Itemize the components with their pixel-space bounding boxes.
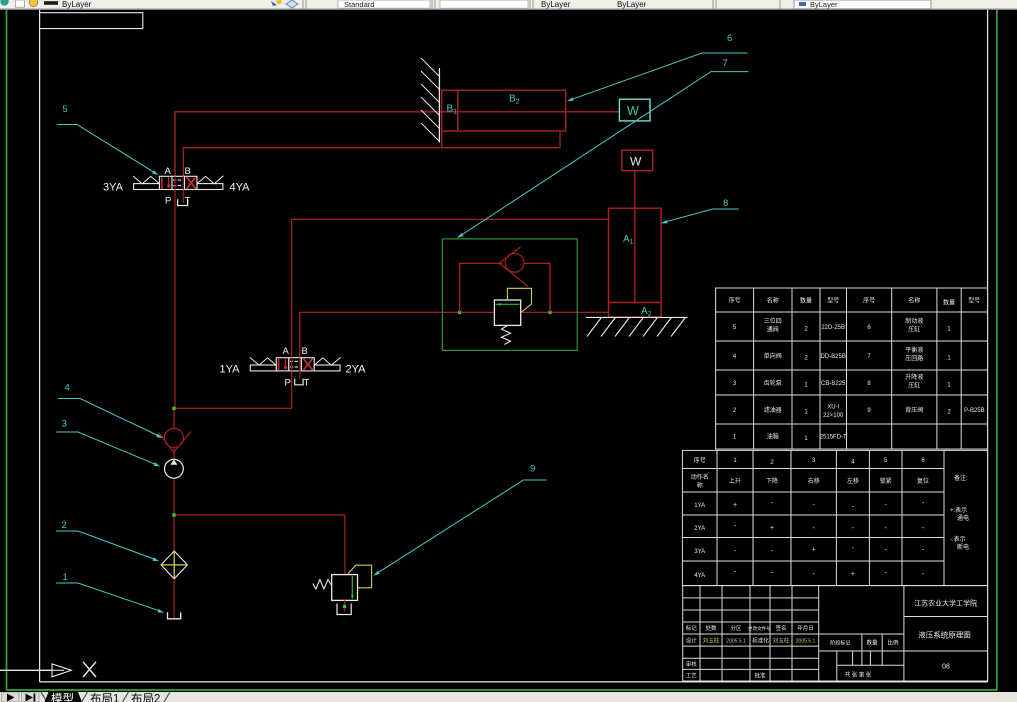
svg-text:P: P	[165, 196, 171, 207]
svg-text:22×100: 22×100	[823, 413, 844, 419]
svg-text:右移: 右移	[808, 477, 820, 485]
leader 6 (to cylinder B)	[571, 53, 748, 100]
svg-text:江苏农业大学工学院: 江苏农业大学工学院	[914, 599, 977, 608]
svg-text:齿轮泵: 齿轮泵	[764, 379, 782, 387]
svg-text:8: 8	[723, 198, 728, 209]
wire: filter to tank T1	[173, 578, 175, 619]
svg-text:+: +	[733, 502, 737, 509]
svg-text:4YA: 4YA	[230, 182, 251, 194]
svg-text:刘玉柱: 刘玉柱	[773, 636, 790, 644]
wire: valve V1 A-port up and right to cylinder B rod line and weight W1	[175, 112, 619, 177]
wire: pump inlet down through junction B to filter	[173, 478, 175, 552]
tank T2 (valve V1 drain)	[178, 199, 188, 205]
svg-text:6: 6	[727, 33, 732, 44]
valve V1 (3YA/4YA solenoid directional valve)	[133, 176, 224, 190]
title block text	[686, 624, 899, 679]
wire: valve V1 B/T vertical drawn over valve body	[182, 176, 184, 189]
leader 8 (to cylinder A)	[664, 209, 739, 222]
wire: valve V2 P/A vertical drawn over valve body	[291, 358, 293, 371]
drawing frame right edge (white)	[987, 10, 989, 682]
leader 5 (to valve V1)	[57, 125, 156, 174]
svg-text:ByLayer: ByLayer	[541, 0, 571, 9]
svg-text:9: 9	[530, 464, 535, 475]
svg-text:油箱: 油箱	[767, 433, 779, 441]
paper boundary (green) left edge	[6, 10, 8, 691]
node D (junction dot right of counterbalance)	[548, 311, 551, 314]
svg-text:ByLayer: ByLayer	[810, 0, 838, 9]
svg-text:XU-I: XU-I	[827, 405, 839, 411]
svg-text:刘玉柱: 刘玉柱	[703, 636, 720, 644]
svg-text:平衡液: 平衡液	[905, 346, 923, 354]
svg-text:上升: 上升	[729, 477, 741, 485]
svg-text:型号: 型号	[968, 297, 980, 305]
svg-text:7: 7	[723, 58, 728, 69]
svg-text:2515FD-T: 2515FD-T	[820, 435, 847, 441]
svg-text:签名: 签名	[775, 624, 786, 632]
pump P1 (circle with up triangle)	[165, 459, 184, 478]
svg-text:分区: 分区	[730, 624, 742, 632]
paper boundary (green) bottom edge	[7, 689, 997, 691]
solenoid table notes column	[950, 474, 969, 551]
node A (junction dot)	[172, 407, 175, 410]
check valve CV1 (above pump)	[159, 428, 191, 452]
tab nav button 1	[2, 692, 20, 702]
svg-text:断电: 断电	[957, 543, 969, 551]
drawing frame bottom edge (white)	[40, 681, 988, 683]
leader 9 (to relief valve RV2 pilot)	[377, 480, 547, 574]
svg-text:三位四: 三位四	[764, 317, 782, 325]
svg-text:3YA: 3YA	[694, 549, 705, 555]
solenoid table text	[691, 457, 929, 490]
wire: valve V2 A-port up and right to cylinder A rod-end	[292, 219, 609, 358]
svg-text:处数: 处数	[705, 624, 717, 632]
wire: valve V1 P/A vertical drawn over valve body	[174, 176, 176, 189]
svg-text:DD-B25B: DD-B25B	[821, 354, 846, 360]
svg-text:T: T	[185, 196, 191, 207]
svg-text:复位: 复位	[917, 477, 929, 485]
svg-text:A: A	[165, 166, 172, 177]
svg-text:5: 5	[63, 104, 68, 115]
weight W1 (cyan box on cylinder B rod)	[619, 99, 650, 121]
svg-text:滤油器: 滤油器	[764, 406, 782, 414]
layout1 tab	[82, 692, 129, 702]
svg-text:1YA: 1YA	[694, 503, 705, 509]
svg-text:B: B	[302, 346, 308, 357]
tank T3 (valve V2 drain)	[295, 379, 303, 385]
svg-text:工艺: 工艺	[686, 672, 698, 679]
wire: pump pressure riser P (valve V1 P-port down to junction A)	[174, 190, 176, 409]
svg-text:ByLayer: ByLayer	[617, 0, 647, 9]
svg-text:+: +	[770, 525, 774, 532]
relief valve RV2 (back-pressure valve, bottom)	[313, 565, 372, 614]
svg-text:阶段标记: 阶段标记	[830, 640, 850, 647]
tab nav button 2	[22, 692, 40, 702]
wire: valve V1 T-port to drain tank T2	[182, 190, 184, 204]
valve V2 (1YA/2YA solenoid directional valve)	[250, 357, 341, 371]
svg-text:布局2: 布局2	[131, 693, 160, 702]
svg-text:年月日: 年月日	[797, 624, 814, 632]
drawing frame left edge (white)	[39, 10, 41, 682]
svg-text:液压系统原理图: 液压系统原理图	[918, 630, 971, 640]
parts table text	[729, 297, 985, 443]
wire: check-valve to pump outlet	[173, 447, 175, 460]
svg-text:数量: 数量	[800, 297, 812, 305]
UCS icon X glyph	[83, 662, 96, 677]
svg-text:CB-B225: CB-B225	[821, 381, 846, 387]
svg-text:下降: 下降	[766, 477, 778, 485]
filter F1 (diamond with cross)	[161, 551, 187, 579]
svg-text:左移: 左移	[847, 477, 859, 485]
wall hatching above cylinder B	[421, 58, 440, 143]
svg-text:3YA: 3YA	[103, 182, 124, 194]
svg-text:标记: 标记	[686, 624, 698, 632]
svg-text:升降液: 升降液	[905, 373, 923, 381]
svg-text:审核: 审核	[686, 660, 698, 668]
svg-text:通电: 通电	[957, 514, 969, 522]
svg-text:22D-25B: 22D-25B	[821, 325, 845, 331]
wire: branch junction B to relief valve RV2	[174, 515, 345, 574]
svg-text:Standard: Standard	[344, 0, 374, 9]
wire: valve V2 B/T vertical drawn over valve body	[299, 358, 301, 379]
svg-text:+: +	[851, 571, 855, 578]
wire: cylinder A piston rod	[634, 171, 636, 303]
svg-text:标准化: 标准化	[752, 636, 769, 644]
svg-text:序号: 序号	[694, 457, 706, 465]
svg-text:4YA: 4YA	[694, 573, 705, 579]
svg-text:动作名: 动作名	[691, 473, 709, 481]
leader 1 (to tank T1)	[56, 583, 161, 611]
svg-text:模型: 模型	[51, 692, 74, 702]
relief valve RV1 (counterbalance, in green block)	[494, 288, 531, 344]
svg-text:共 张 第 张: 共 张 第 张	[845, 671, 872, 679]
svg-text:+: +	[812, 547, 816, 554]
svg-text:2005.5.1: 2005.5.1	[726, 638, 746, 644]
UCS icon arrowhead	[52, 664, 71, 677]
wire: check-valve bypass loop inside green block	[460, 263, 502, 312]
wire: valve V2 B-port up and right to green counterbalance block and cylinder A2	[300, 312, 609, 358]
svg-text:1: 1	[63, 572, 68, 583]
leader 2 (to filter F1)	[56, 531, 156, 560]
svg-text:型号: 型号	[827, 297, 839, 305]
svg-text:数量: 数量	[943, 299, 955, 307]
ground hatching under cylinder A	[586, 317, 688, 336]
tank T1 (main suction tank)	[168, 612, 181, 619]
svg-text:数量: 数量	[866, 639, 878, 647]
title block grid	[683, 586, 988, 681]
svg-text:压回路: 压回路	[905, 355, 923, 363]
svg-text:W: W	[630, 155, 642, 169]
svg-text:T: T	[304, 378, 310, 389]
svg-text:4: 4	[65, 383, 70, 394]
svg-text:2YA: 2YA	[346, 364, 367, 376]
weight W2 (red box on cylinder A rod)	[622, 150, 653, 170]
svg-text:-:表示: -:表示	[950, 535, 966, 543]
svg-text:压缸: 压缸	[908, 382, 920, 390]
svg-text:比例: 比例	[887, 639, 899, 647]
svg-text:通阀: 通阀	[767, 326, 779, 334]
solenoid table grid	[682, 450, 987, 585]
node B (junction dot)	[172, 513, 175, 516]
counterbalance block (green boundary)	[442, 239, 577, 351]
leader 4 (to check valve CV1)	[58, 399, 159, 437]
svg-text:批准: 批准	[754, 671, 766, 679]
svg-text:08: 08	[942, 664, 950, 671]
toolbar strip (top, cut off)	[0, 0, 1017, 10]
parts table grid	[716, 288, 988, 449]
wire: junction A to check-valve inlet	[173, 408, 175, 429]
svg-text:W: W	[627, 104, 639, 118]
svg-text:B: B	[185, 166, 191, 177]
check valve CV2 (in green block)	[499, 247, 528, 286]
svg-text:单向阀: 单向阀	[764, 352, 782, 360]
svg-text:称: 称	[697, 482, 703, 490]
wire: valve V1 B-port up to cylinder B rod-end chamber	[183, 131, 560, 176]
svg-text:2: 2	[62, 520, 67, 531]
layout2 tab	[131, 692, 170, 702]
svg-text:锁紧: 锁紧	[880, 477, 892, 485]
wire: bypass loop right leg	[524, 263, 550, 312]
paper boundary (green) right edge	[996, 10, 998, 691]
svg-text:1YA: 1YA	[220, 364, 241, 376]
svg-text:名称: 名称	[767, 297, 779, 305]
svg-text:序号: 序号	[863, 297, 875, 305]
tab bar at bottom	[0, 692, 1017, 702]
leader 3 (to pump P1)	[56, 432, 157, 465]
wire: branch junction A to valve V2 P-port	[174, 371, 292, 408]
node C (junction dot left of counterbalance)	[458, 311, 461, 314]
svg-text:2YA: 2YA	[694, 526, 705, 532]
svg-text:P-B25B: P-B25B	[964, 408, 985, 414]
top-left partial cell of frame	[40, 13, 143, 29]
svg-text:ByLayer: ByLayer	[62, 0, 92, 9]
leader 7 (to counterbalance block)	[460, 72, 749, 237]
svg-text:制动液: 制动液	[905, 317, 923, 325]
svg-text:备注:: 备注:	[954, 474, 968, 482]
svg-text:背压阀: 背压阀	[905, 406, 923, 414]
svg-text:压缸: 压缸	[908, 326, 920, 334]
svg-text:2005.5.1: 2005.5.1	[796, 638, 816, 644]
svg-text:更改文件号: 更改文件号	[748, 625, 771, 632]
cylinder A (vertical, A1 / A2 chambers)	[609, 208, 662, 317]
svg-text:设计: 设计	[686, 636, 698, 644]
svg-text:A: A	[283, 346, 290, 357]
svg-text:序号: 序号	[729, 297, 741, 305]
svg-text:名称: 名称	[908, 297, 920, 305]
UCS icon axis line	[0, 669, 52, 671]
cylinder B (horizontal, B1 piston / B2 chamber)	[442, 90, 566, 148]
svg-text:+:表示: +:表示	[950, 506, 967, 514]
svg-text:P: P	[285, 378, 291, 389]
svg-text:3: 3	[62, 419, 67, 430]
model tab (active, inverted)	[41, 692, 82, 702]
svg-text:布局1: 布局1	[90, 693, 119, 702]
